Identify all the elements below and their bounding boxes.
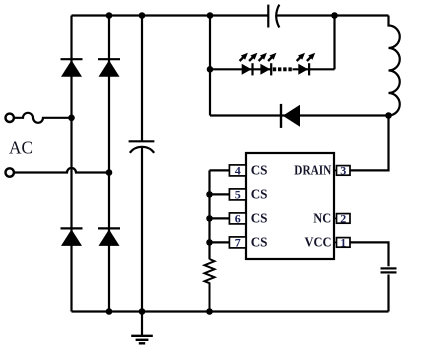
svg-text:1: 1 — [340, 235, 346, 249]
svg-text:3: 3 — [340, 163, 346, 177]
svg-text:CS: CS — [251, 162, 268, 177]
svg-text:CS: CS — [251, 186, 268, 201]
svg-text:5: 5 — [235, 187, 241, 201]
svg-text:CS: CS — [251, 234, 268, 249]
svg-text:4: 4 — [235, 163, 241, 177]
svg-text:7: 7 — [235, 235, 241, 249]
svg-text:VCC: VCC — [305, 234, 332, 249]
svg-text:NC: NC — [313, 210, 331, 225]
svg-text:2: 2 — [340, 211, 346, 225]
svg-text:DRAIN: DRAIN — [294, 162, 331, 177]
svg-text:6: 6 — [235, 211, 241, 225]
svg-text:CS: CS — [251, 210, 268, 225]
svg-text:AC: AC — [9, 138, 33, 158]
